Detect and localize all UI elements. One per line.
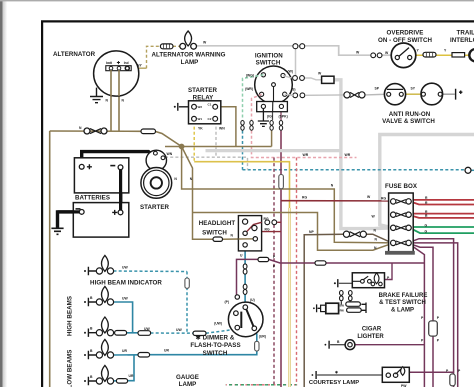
svg-text:SWITCH: SWITCH <box>256 59 281 66</box>
svg-text:W1: W1 <box>198 117 203 121</box>
wire N brown horizontal bus y=131 <box>50 130 141 132</box>
svg-text:UW: UW <box>122 266 128 270</box>
svg-text:CIGAR: CIGAR <box>362 327 382 333</box>
svg-text:FUSE BOX: FUSE BOX <box>385 183 418 190</box>
svg-text:YK: YK <box>198 127 203 131</box>
wire GR green bottom dashed overlay <box>226 384 297 386</box>
connector bullet pairs on U wire <box>243 264 247 295</box>
wire RG maroon long horizontal to fuse 1 <box>281 200 391 202</box>
trailer interlock socket edge <box>469 49 474 61</box>
wire W ignition diagonal (over circle) <box>283 76 292 78</box>
svg-text:INTERLOCK: INTERLOCK <box>450 37 474 44</box>
lamp high beam left <box>84 286 114 306</box>
connector end on UW bus right <box>465 167 471 173</box>
wire W thick cable from ballast down to fuse box <box>334 80 391 229</box>
wire N brown vertical left side <box>49 131 51 387</box>
battery box 2 <box>73 203 129 238</box>
wire Y yellow long horizontal and vertical bundle <box>194 162 289 208</box>
wire Y yellow overdrive to trailer interlock <box>416 54 470 56</box>
svg-text:✚: ✚ <box>117 60 121 65</box>
svg-text:UW: UW <box>122 296 128 300</box>
svg-text:(UW): (UW) <box>214 322 222 326</box>
lamp low beam right <box>84 365 114 385</box>
courtesy lamp ground <box>315 371 317 379</box>
svg-text:LAMP: LAMP <box>179 381 197 387</box>
wire WG ignition diagonal (over circle) <box>243 75 264 79</box>
wire P fuse4 branch d <box>411 246 424 387</box>
svg-text:COURTESY LAMP: COURTESY LAMP <box>309 380 359 386</box>
connector bullet pairs below brake switch <box>340 291 353 301</box>
connector capsule on UW indicator vertical <box>185 278 189 288</box>
connector capsule on NY wire <box>160 44 173 49</box>
wire N brown from alternator + terminal <box>118 70 120 131</box>
wire WR maroon solid vertical x=281 <box>280 131 282 387</box>
brake failure switch box <box>352 273 384 288</box>
wire maroon dashed vertical x=274 <box>273 158 275 387</box>
wire P fuse4 branch c with capsule <box>411 244 433 387</box>
wire P fuse4 branch b <box>411 243 457 387</box>
alternator warning lamp <box>185 31 192 46</box>
connector pair on ignition W <box>293 76 298 81</box>
svg-text:C1: C1 <box>208 103 212 107</box>
anti run-on valve <box>384 84 405 105</box>
wire WR ignition pink dashed down <box>252 94 262 120</box>
svg-text:HIGH BEAM INDICATOR: HIGH BEAM INDICATOR <box>90 280 162 287</box>
svg-text:ANTI RUN-ON: ANTI RUN-ON <box>389 111 431 118</box>
svg-text:ALTERNATOR: ALTERNATOR <box>53 51 96 58</box>
connector pair on W wire near overdrive <box>371 53 376 58</box>
connector capsules on UW high beam <box>115 331 127 336</box>
svg-text:SWITCH: SWITCH <box>202 230 227 237</box>
wire B battery series link (over boxes) <box>119 170 122 210</box>
wire P branch down to brake failure switch <box>385 263 393 280</box>
wire R red fuse2 out <box>411 214 474 218</box>
starter relay ground <box>178 103 189 111</box>
wire R red fuse1 out <box>411 200 474 205</box>
svg-text:WN: WN <box>219 127 225 131</box>
connector capsule on UR to low beam right <box>116 379 127 384</box>
svg-text:WR: WR <box>345 153 351 157</box>
wire UW teal dashed long horizontal bus <box>243 169 465 171</box>
svg-text:ON - OFF SWITCH: ON - OFF SWITCH <box>378 37 433 44</box>
battery box 1 <box>74 158 128 193</box>
starter solenoid <box>146 150 166 170</box>
svg-text:STARTER: STARTER <box>188 87 218 94</box>
svg-text:NY: NY <box>137 64 142 68</box>
connector pair on RG out of headlight switch <box>265 220 270 225</box>
svg-text:SWITCH: SWITCH <box>203 350 228 357</box>
wire WG ignition green dashed down <box>243 75 264 120</box>
wire N branch to fuse via x=317.5 <box>193 213 392 251</box>
svg-text:OVERDRIVE: OVERDRIVE <box>387 29 424 36</box>
svg-text:BW: BW <box>340 304 345 308</box>
connector rect on Y wire <box>452 53 465 57</box>
cigar lighter socket <box>328 341 330 349</box>
svg-text:G: G <box>425 223 428 227</box>
connector capsule on UR vertical <box>255 341 259 351</box>
wire U teal headlight switch down to dimmer <box>244 251 246 305</box>
svg-text:(IG): (IG) <box>267 114 273 118</box>
wire N brown bus from alternator batt terminal <box>110 70 112 131</box>
wire SPK ignition maroon <box>280 109 282 120</box>
connector bullet pairs below ignition <box>241 121 283 131</box>
brake switch ground <box>337 279 339 287</box>
wire NY alternator ind to warning lamp (dashed tan) <box>130 67 147 69</box>
wire SY between anti run-on valve and switch <box>406 93 421 95</box>
wire N capsule to headlight switch <box>223 238 256 241</box>
wire UW dashed indicator to dimmer <box>114 270 188 273</box>
courtesy lamp box <box>382 367 409 382</box>
wire B black battery cable bat1 to solenoid <box>82 152 152 165</box>
wire UR teal low beams to dimmer <box>114 351 257 355</box>
wire P fuse4 branch a to courtesy lamp vertical <box>411 239 453 387</box>
headlight switch box <box>238 216 261 251</box>
alternator ground <box>90 88 103 103</box>
connector pair on W wire <box>293 44 298 49</box>
svg-text:RG: RG <box>302 195 307 199</box>
wire B black bat2 to ground <box>58 212 80 228</box>
wire RW red dashed vertical x=296.5 and bottom corner <box>226 158 297 385</box>
svg-text:SY: SY <box>411 86 416 90</box>
lamp high beam right <box>84 317 114 337</box>
svg-text:RELAY: RELAY <box>193 94 214 101</box>
svg-text:(S): (S) <box>291 87 296 91</box>
ballast resistor rect <box>322 76 334 83</box>
wire B bat2 to ground (over box) <box>58 210 80 213</box>
alternator terminal block <box>106 66 131 71</box>
svg-text:RG: RG <box>264 217 269 221</box>
wire N brown bus y=146.5 solenoid to ignition <box>165 146 272 148</box>
svg-text:(W): (W) <box>288 70 293 74</box>
connector pair on ignition S <box>293 93 298 98</box>
svg-text:UW: UW <box>144 327 150 331</box>
wire P cigar lighter feed <box>355 344 425 346</box>
svg-text:& TEST SWITCH: & TEST SWITCH <box>379 300 426 306</box>
svg-text:ALTERNATOR WARNING: ALTERNATOR WARNING <box>151 52 225 59</box>
connector capsule on UR to low beam <box>138 353 150 358</box>
svg-text:WN: WN <box>167 152 173 156</box>
wire RG headlight switch to maroon vertical <box>277 221 281 223</box>
wire N relay C1 down to bus <box>221 107 236 147</box>
svg-text:NP: NP <box>309 230 314 234</box>
svg-text:RW: RW <box>340 308 345 312</box>
dimmer switch body <box>228 302 263 337</box>
lamp high beam indicator <box>84 255 114 275</box>
wire W thick cable from right edge down to fuse box <box>380 135 474 228</box>
wire W ignition terminal to ballast rect <box>283 76 322 80</box>
starter relay box <box>189 101 221 124</box>
wire N brown diagonal to starter junction <box>156 132 182 147</box>
svg-text:UR: UR <box>122 349 127 353</box>
wire B courtesy lamp ground line <box>317 374 382 376</box>
wire S ignition to anti run-on <box>285 94 344 95</box>
svg-text:VALVE & SWITCH: VALVE & SWITCH <box>382 118 435 125</box>
wire NP dark from bottom up to fuse <box>304 234 343 387</box>
ignition switch body <box>255 66 293 104</box>
svg-text:(SPK): (SPK) <box>279 114 288 118</box>
svg-text:WR: WR <box>303 153 309 157</box>
svg-text:RG: RG <box>265 228 270 232</box>
battery feed symbol <box>456 89 463 100</box>
window left edge strip <box>0 0 3 387</box>
svg-text:W2: W2 <box>198 105 203 109</box>
svg-text:Ind: Ind <box>124 61 129 65</box>
svg-text:batt: batt <box>106 61 113 65</box>
wire UW solid high beam lamps <box>114 302 133 333</box>
alternator body <box>94 51 139 96</box>
svg-text:✱: ✱ <box>335 371 338 375</box>
wire YK yellow dashed from starter relay <box>193 121 195 161</box>
wire N junction down to y=189 bus <box>182 147 391 243</box>
wire N junction diagonal down to headlight switch <box>182 147 213 240</box>
svg-text:✱ DIMMER &: ✱ DIMMER & <box>196 335 235 342</box>
svg-text:(P): (P) <box>224 300 229 304</box>
svg-text:& LAMP: & LAMP <box>391 307 414 313</box>
wire B cigar lighter ground line <box>330 344 345 346</box>
wire S ignition diagonal (over circle) <box>285 94 293 95</box>
wire P maroon loop dimmer to fuse area <box>237 259 425 295</box>
wire G green fuse3 out <box>411 227 474 233</box>
wire B brake switch ground line <box>339 282 353 284</box>
svg-text:UW: UW <box>176 328 182 332</box>
svg-text:LOW BEAMS: LOW BEAMS <box>67 350 74 387</box>
wire WR ignition diagonal (over circle) <box>252 94 262 98</box>
ignition ground <box>258 109 269 127</box>
wire IG ignition to connector <box>272 112 274 120</box>
connector capsule on Y wire <box>423 52 436 57</box>
starter motor <box>141 168 172 199</box>
connector crossed on NP wire <box>343 231 349 237</box>
ignition switch base block <box>257 102 288 112</box>
wire to battery symbol from anti run-on switch <box>443 93 455 95</box>
wire W white from warning lamp to overdrive <box>197 46 371 55</box>
svg-text:BATTERIES: BATTERIES <box>75 195 110 202</box>
junction dot starter N <box>179 144 185 150</box>
svg-text:RG: RG <box>381 196 386 200</box>
connector capsule on N into headlight switch <box>213 237 223 241</box>
svg-text:(U): (U) <box>250 298 255 302</box>
connector capsule on WR vertical <box>279 175 284 189</box>
connector capsule on P loop <box>258 257 269 261</box>
svg-text:(WG): (WG) <box>246 73 254 77</box>
wire N ignition feed up from bus <box>271 131 273 147</box>
svg-text:HEADLIGHT: HEADLIGHT <box>199 220 236 227</box>
svg-text:STARTER: STARTER <box>140 204 170 211</box>
connector capsule on P courtesy vertical <box>450 374 455 386</box>
svg-text:LIGHTER: LIGHTER <box>357 334 384 340</box>
svg-text:UR: UR <box>129 374 134 378</box>
connector capsule on P branch c <box>429 321 438 336</box>
svg-text:FLASH-TO-PASS: FLASH-TO-PASS <box>190 342 240 349</box>
connector crossed on N bus left <box>84 128 90 134</box>
svg-text:C2: C2 <box>208 117 212 121</box>
svg-text:G: G <box>425 229 428 233</box>
wire W thick cable solenoid area to fuse vertical <box>206 149 341 152</box>
anti run-on switch <box>421 83 443 105</box>
connector capsule on N bus <box>141 129 156 134</box>
connector capsule on P loop 2 <box>315 261 326 265</box>
wire P courtesy lamp branch <box>409 371 453 373</box>
svg-text:LAMP: LAMP <box>181 59 199 66</box>
window top edge strip <box>0 0 474 1</box>
connector crossed anti run-on <box>344 92 350 98</box>
svg-text:(WR): (WR) <box>245 87 253 91</box>
overdrive on-off switch <box>391 43 416 68</box>
wire WN white dashed from starter relay <box>215 121 217 157</box>
lamp low beam left <box>84 339 114 359</box>
svg-text:SP: SP <box>375 86 380 90</box>
battery ground <box>51 228 63 234</box>
svg-text:UR: UR <box>164 349 169 353</box>
wire WR pink dashed down and right bus y=157.5 <box>252 131 357 158</box>
svg-text:TRAILER: TRAILER <box>457 29 474 36</box>
wire U teal dashed ignition down to long bus <box>242 131 244 170</box>
wire B black battery series link <box>119 170 122 210</box>
fuse box <box>389 193 414 253</box>
wire W branch down to ignition switch <box>295 46 297 78</box>
svg-text:BRAKE FAILURE: BRAKE FAILURE <box>379 293 428 299</box>
wire WN white dashed bus from solenoid <box>165 157 248 170</box>
cigar lighter element plug <box>317 304 321 312</box>
svg-text:(UR): (UR) <box>259 335 266 339</box>
svg-text:HIGH BEAMS: HIGH BEAMS <box>67 296 74 336</box>
